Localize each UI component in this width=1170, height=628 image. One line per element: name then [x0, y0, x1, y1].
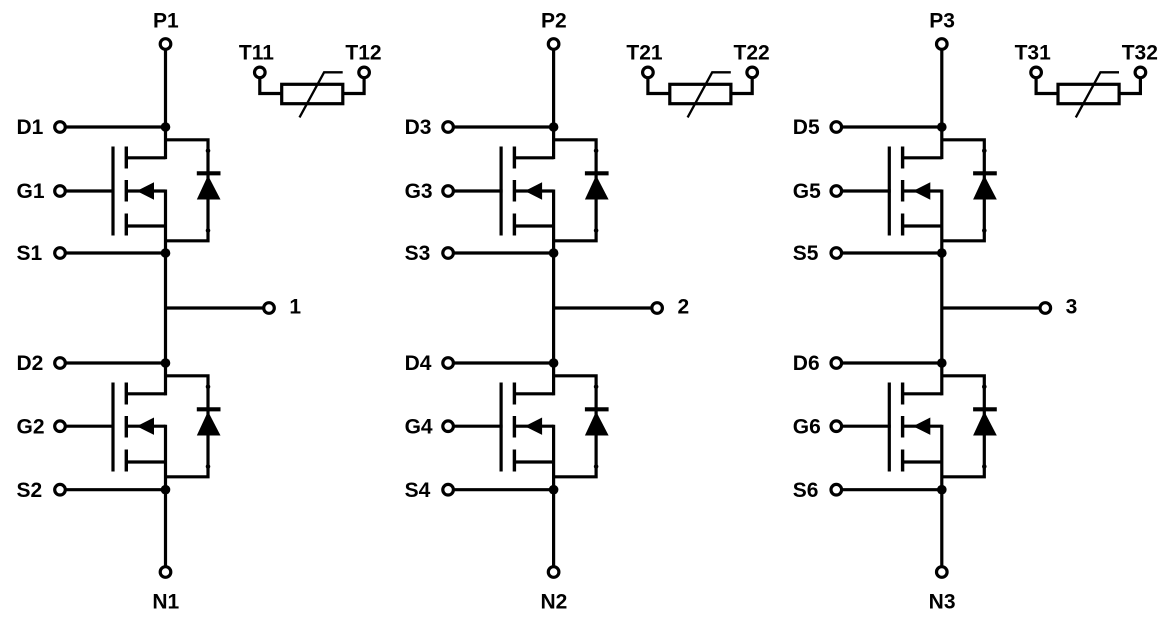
wire phase output 1	[166, 306, 265, 309]
wire G6 lead	[841, 425, 891, 428]
svg-text:P1: P1	[153, 9, 179, 32]
junction node S4	[549, 485, 559, 495]
svg-text:S6: S6	[793, 479, 819, 502]
svg-text:T11: T11	[239, 41, 274, 64]
wire S4 lead	[453, 488, 553, 491]
wire T31 to thermistor RT3	[1036, 77, 1058, 93]
svg-text:T21: T21	[626, 41, 663, 64]
junction node D5	[937, 122, 947, 132]
svg-text:S3: S3	[405, 242, 431, 265]
wire T11 to thermistor RT1	[260, 77, 282, 93]
terminal G6	[831, 421, 842, 432]
wire S3 lead	[453, 251, 553, 254]
junction node D6	[937, 358, 947, 368]
terminal G5	[831, 186, 842, 197]
wire D2 lead	[65, 361, 166, 364]
terminal N2	[548, 567, 559, 578]
wire D6 lead	[841, 361, 942, 364]
body diode of Q2	[166, 376, 221, 477]
svg-text:D6: D6	[793, 352, 820, 375]
transistor Q4 (N-channel MOSFET)	[501, 383, 553, 472]
wire G4 lead	[453, 425, 503, 428]
svg-text:G4: G4	[405, 415, 433, 438]
terminal G3	[443, 186, 454, 197]
thermistor RT2 temperature stroke	[688, 72, 731, 117]
body diode of Q5	[942, 140, 997, 241]
wire phase output 3	[942, 306, 1041, 309]
transistor Q1 (N-channel MOSFET)	[113, 147, 166, 236]
wire D1 lead	[65, 125, 166, 128]
wire source Q2 to N1	[164, 425, 167, 567]
wire G1 lead	[65, 189, 115, 192]
svg-text:N3: N3	[929, 590, 956, 613]
svg-text:1: 1	[289, 296, 301, 319]
thermistor RT1 temperature stroke	[300, 72, 343, 117]
terminal T22	[747, 67, 758, 78]
junction node D4	[549, 358, 559, 368]
wire thermistor RT1 to T12	[343, 77, 364, 93]
svg-text:T31: T31	[1015, 41, 1052, 64]
terminal T21	[643, 67, 654, 78]
transistor Q6 (N-channel MOSFET)	[889, 383, 942, 472]
wire G5 lead	[841, 189, 891, 192]
svg-text:S4: S4	[405, 479, 431, 502]
junction node D1	[161, 122, 171, 132]
svg-text:P3: P3	[929, 9, 955, 32]
wire P2 to drain node	[552, 49, 555, 159]
body diode of Q3	[554, 140, 609, 241]
transistor Q3 (N-channel MOSFET)	[501, 147, 553, 236]
terminal P3	[937, 39, 948, 50]
wire P3 to drain node	[940, 49, 943, 159]
junction node S3	[549, 248, 559, 258]
terminal S5	[831, 248, 842, 259]
svg-text:S1: S1	[17, 242, 43, 265]
terminal D4	[443, 358, 454, 369]
svg-text:G5: G5	[793, 180, 821, 203]
wire S2 lead	[65, 488, 166, 491]
thermistor RT3 body	[1058, 84, 1119, 103]
terminal D2	[55, 358, 66, 369]
wire S6 lead	[841, 488, 942, 491]
junction node S2	[161, 485, 171, 495]
junction node S6	[937, 485, 947, 495]
svg-text:T32: T32	[1122, 41, 1158, 64]
terminal D3	[443, 122, 454, 133]
thermistor RT3 temperature stroke	[1076, 72, 1119, 117]
svg-text:D3: D3	[405, 116, 432, 139]
wire source Q5 to drain Q6	[940, 190, 943, 396]
terminal D5	[831, 122, 842, 133]
junction node D3	[549, 122, 559, 132]
terminal G1	[55, 186, 66, 197]
terminal S6	[831, 484, 842, 495]
transistor Q5 (N-channel MOSFET)	[889, 147, 942, 236]
wire D5 lead	[841, 125, 942, 128]
terminal D1	[55, 122, 66, 133]
wire G3 lead	[453, 189, 503, 192]
wire phase output 2	[554, 306, 653, 309]
terminal T32	[1135, 67, 1146, 78]
wire source Q1 to drain Q2	[164, 190, 167, 396]
wire source Q6 to N3	[940, 425, 943, 567]
terminal output 3	[1040, 303, 1051, 314]
junction node S5	[937, 248, 947, 258]
svg-text:P2: P2	[541, 9, 567, 32]
wire P1 to drain node	[164, 49, 167, 159]
svg-text:3: 3	[1066, 296, 1078, 319]
svg-text:T22: T22	[734, 41, 770, 64]
wire thermistor RT2 to T22	[731, 77, 752, 93]
terminal T12	[359, 67, 370, 78]
svg-text:N1: N1	[152, 590, 179, 613]
terminal T11	[254, 67, 265, 78]
wire D3 lead	[453, 125, 553, 128]
svg-text:N2: N2	[540, 590, 567, 613]
wire source Q4 to N2	[552, 425, 555, 567]
svg-text:D4: D4	[405, 352, 432, 375]
svg-text:G6: G6	[793, 415, 821, 438]
terminal S2	[55, 484, 66, 495]
wire thermistor RT3 to T32	[1119, 77, 1140, 93]
body diode of Q6	[942, 376, 997, 477]
terminal G4	[443, 421, 454, 432]
terminal S4	[443, 484, 454, 495]
transistor Q2 (N-channel MOSFET)	[113, 383, 166, 472]
svg-text:2: 2	[677, 296, 689, 319]
terminal N1	[160, 567, 171, 578]
wire D4 lead	[453, 361, 553, 364]
terminal S1	[55, 248, 66, 259]
wire S1 lead	[65, 251, 166, 254]
wire T21 to thermistor RT2	[648, 77, 670, 93]
thermistor RT2 body	[670, 84, 731, 103]
terminal output 1	[264, 303, 275, 314]
thermistor RT1 body	[282, 84, 343, 103]
terminal N3	[937, 567, 948, 578]
wire source Q3 to drain Q4	[552, 190, 555, 396]
terminal output 2	[652, 303, 663, 314]
svg-text:D5: D5	[793, 116, 820, 139]
junction node S1	[161, 248, 171, 258]
wire S5 lead	[841, 251, 942, 254]
svg-text:T12: T12	[345, 41, 381, 64]
body diode of Q1	[166, 140, 221, 241]
terminal G2	[55, 421, 66, 432]
svg-text:G2: G2	[17, 415, 45, 438]
svg-text:S5: S5	[793, 242, 819, 265]
body diode of Q4	[554, 376, 609, 477]
svg-text:D2: D2	[17, 352, 44, 375]
terminal T31	[1031, 67, 1042, 78]
terminal P1	[160, 39, 171, 50]
terminal S3	[443, 248, 454, 259]
junction node D2	[161, 358, 171, 368]
wire G2 lead	[65, 425, 115, 428]
svg-text:G1: G1	[17, 180, 45, 203]
svg-text:S2: S2	[17, 479, 43, 502]
terminal P2	[548, 39, 559, 50]
terminal D6	[831, 358, 842, 369]
svg-text:D1: D1	[17, 116, 44, 139]
svg-text:G3: G3	[405, 180, 433, 203]
